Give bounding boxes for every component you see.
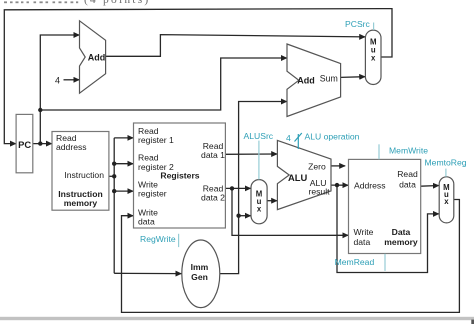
svg-text:ALUSrc: ALUSrc (244, 131, 274, 141)
wire: data memory Read data to MemtoReg mux input 1 (421, 185, 439, 188)
svg-text:Address: Address (354, 180, 386, 190)
svg-text:x: x (257, 205, 262, 214)
wire: PCSrc mux output feedback to PC (top loop) (4, 9, 392, 144)
control signal RegWrite (140, 234, 179, 247)
register PC (16, 114, 33, 172)
adder Add (PC+4) (80, 21, 106, 93)
registers (134, 123, 226, 228)
svg-text:Data: Data (392, 227, 411, 237)
svg-text:PCSrc: PCSrc (345, 19, 371, 29)
svg-text:4: 4 (286, 133, 291, 143)
svg-text:ALU operation: ALU operation (305, 132, 360, 142)
svg-text:4: 4 (55, 75, 60, 85)
mux MemtoReg (439, 177, 454, 223)
junction read data 2 node (230, 186, 234, 190)
svg-text:Sum: Sum (320, 73, 338, 83)
svg-text:Write: Write (354, 227, 374, 237)
svg-text:memory: memory (64, 198, 98, 208)
control signal ALU operation (4-bit bus) (286, 132, 360, 149)
svg-text:register: register (138, 189, 167, 199)
junction immediate node (236, 214, 240, 218)
Imm Gen (182, 240, 220, 308)
svg-text:Registers: Registers (160, 170, 199, 180)
svg-text:x: x (371, 54, 376, 63)
junction ALU result node (335, 183, 339, 187)
wire: Read data 2 branch to data memory Write data (232, 188, 348, 235)
control signal ALUSrc (244, 131, 274, 180)
control signal MemtoReg (425, 158, 467, 177)
svg-text:Gen: Gen (191, 272, 208, 282)
title fragment letter bottoms (cut-off heading text) (4, 1, 78, 3)
wire: ALUSrc mux output to ALU input 2 (267, 200, 277, 202)
svg-text:address: address (56, 142, 87, 152)
wire: instruction to Read register 2 (114, 163, 133, 165)
mux PCSrc (365, 30, 381, 84)
wire: instruction bus vertical (113, 138, 115, 273)
svg-text:Read: Read (397, 169, 418, 179)
svg-text:data 1: data 1 (201, 150, 225, 160)
wire: instruction to Write register (114, 190, 133, 192)
junction PC branch node (38, 108, 42, 112)
bottom right corner mark (471, 320, 474, 324)
control signal MemWrite (379, 144, 428, 159)
svg-text:PC: PC (18, 139, 31, 150)
junction instruction bus read register 2 (112, 162, 116, 166)
wire: constant 4 into Add (64, 79, 80, 81)
wire: ALU result bypass to MemtoReg mux input 0 (337, 185, 439, 272)
junction instruction bus write register (112, 189, 116, 193)
data memory (349, 159, 421, 253)
wire: Read data 2 to ALUSrc mux input 0 (225, 187, 250, 189)
mux ALUSrc (251, 180, 267, 224)
svg-text:(4 points): (4 points) (84, 0, 150, 6)
wire: PC to branch Add top input (40, 58, 287, 110)
svg-text:RegWrite: RegWrite (140, 234, 176, 244)
svg-text:Add: Add (88, 52, 106, 62)
wire: immediate to ALUSrc mux input 1 (239, 215, 251, 217)
junction instruction bus instruction out (112, 174, 116, 178)
wire: instruction to Read register 1 (114, 137, 133, 139)
junction PC output node (38, 141, 42, 145)
svg-text:Add: Add (297, 76, 315, 86)
instruction memory (52, 132, 109, 211)
ALU (277, 140, 331, 209)
wire: ALU Zero output (331, 165, 345, 167)
adder Add (branch target) (287, 44, 341, 117)
svg-text:data: data (354, 237, 371, 247)
wire: Add (PC+4) output to PCSrc mux input 0 (106, 35, 366, 57)
svg-text:x: x (444, 197, 449, 206)
svg-text:Zero: Zero (308, 161, 326, 171)
wire: branch Add Sum output to PCSrc mux input 1 (341, 76, 366, 79)
wire: MemtoReg mux output feedback to registers Write data (122, 200, 460, 313)
wire: instruction output to instruction bus (109, 175, 114, 177)
svg-text:ALU: ALU (288, 172, 307, 183)
svg-text:result: result (308, 187, 330, 197)
svg-text:data: data (138, 217, 155, 227)
svg-text:Imm: Imm (191, 262, 209, 272)
svg-text:MemRead: MemRead (335, 257, 375, 267)
svg-text:data 2: data 2 (201, 193, 225, 203)
bottom window edge gray band (0, 317, 474, 320)
wire: Read data 1 to ALU input 1 (225, 153, 277, 155)
svg-text:data: data (399, 179, 416, 189)
wire: PC output to instruction memory read address (33, 143, 52, 145)
wire: instruction to Imm Gen (114, 272, 181, 274)
svg-text:Instruction: Instruction (64, 170, 104, 180)
svg-text:register 1: register 1 (138, 135, 174, 145)
svg-text:MemtoReg: MemtoReg (425, 158, 467, 168)
control signal PCSrc (345, 19, 374, 30)
svg-text:memory: memory (384, 237, 418, 247)
control signal MemRead (335, 254, 385, 271)
wire: ALU result to data memory Address (331, 184, 348, 186)
svg-text:MemWrite: MemWrite (389, 145, 428, 155)
wire: Imm Gen output up to branch Add bottom input (220, 102, 287, 274)
wire: PC up to Add (PC+4) input (40, 35, 79, 144)
